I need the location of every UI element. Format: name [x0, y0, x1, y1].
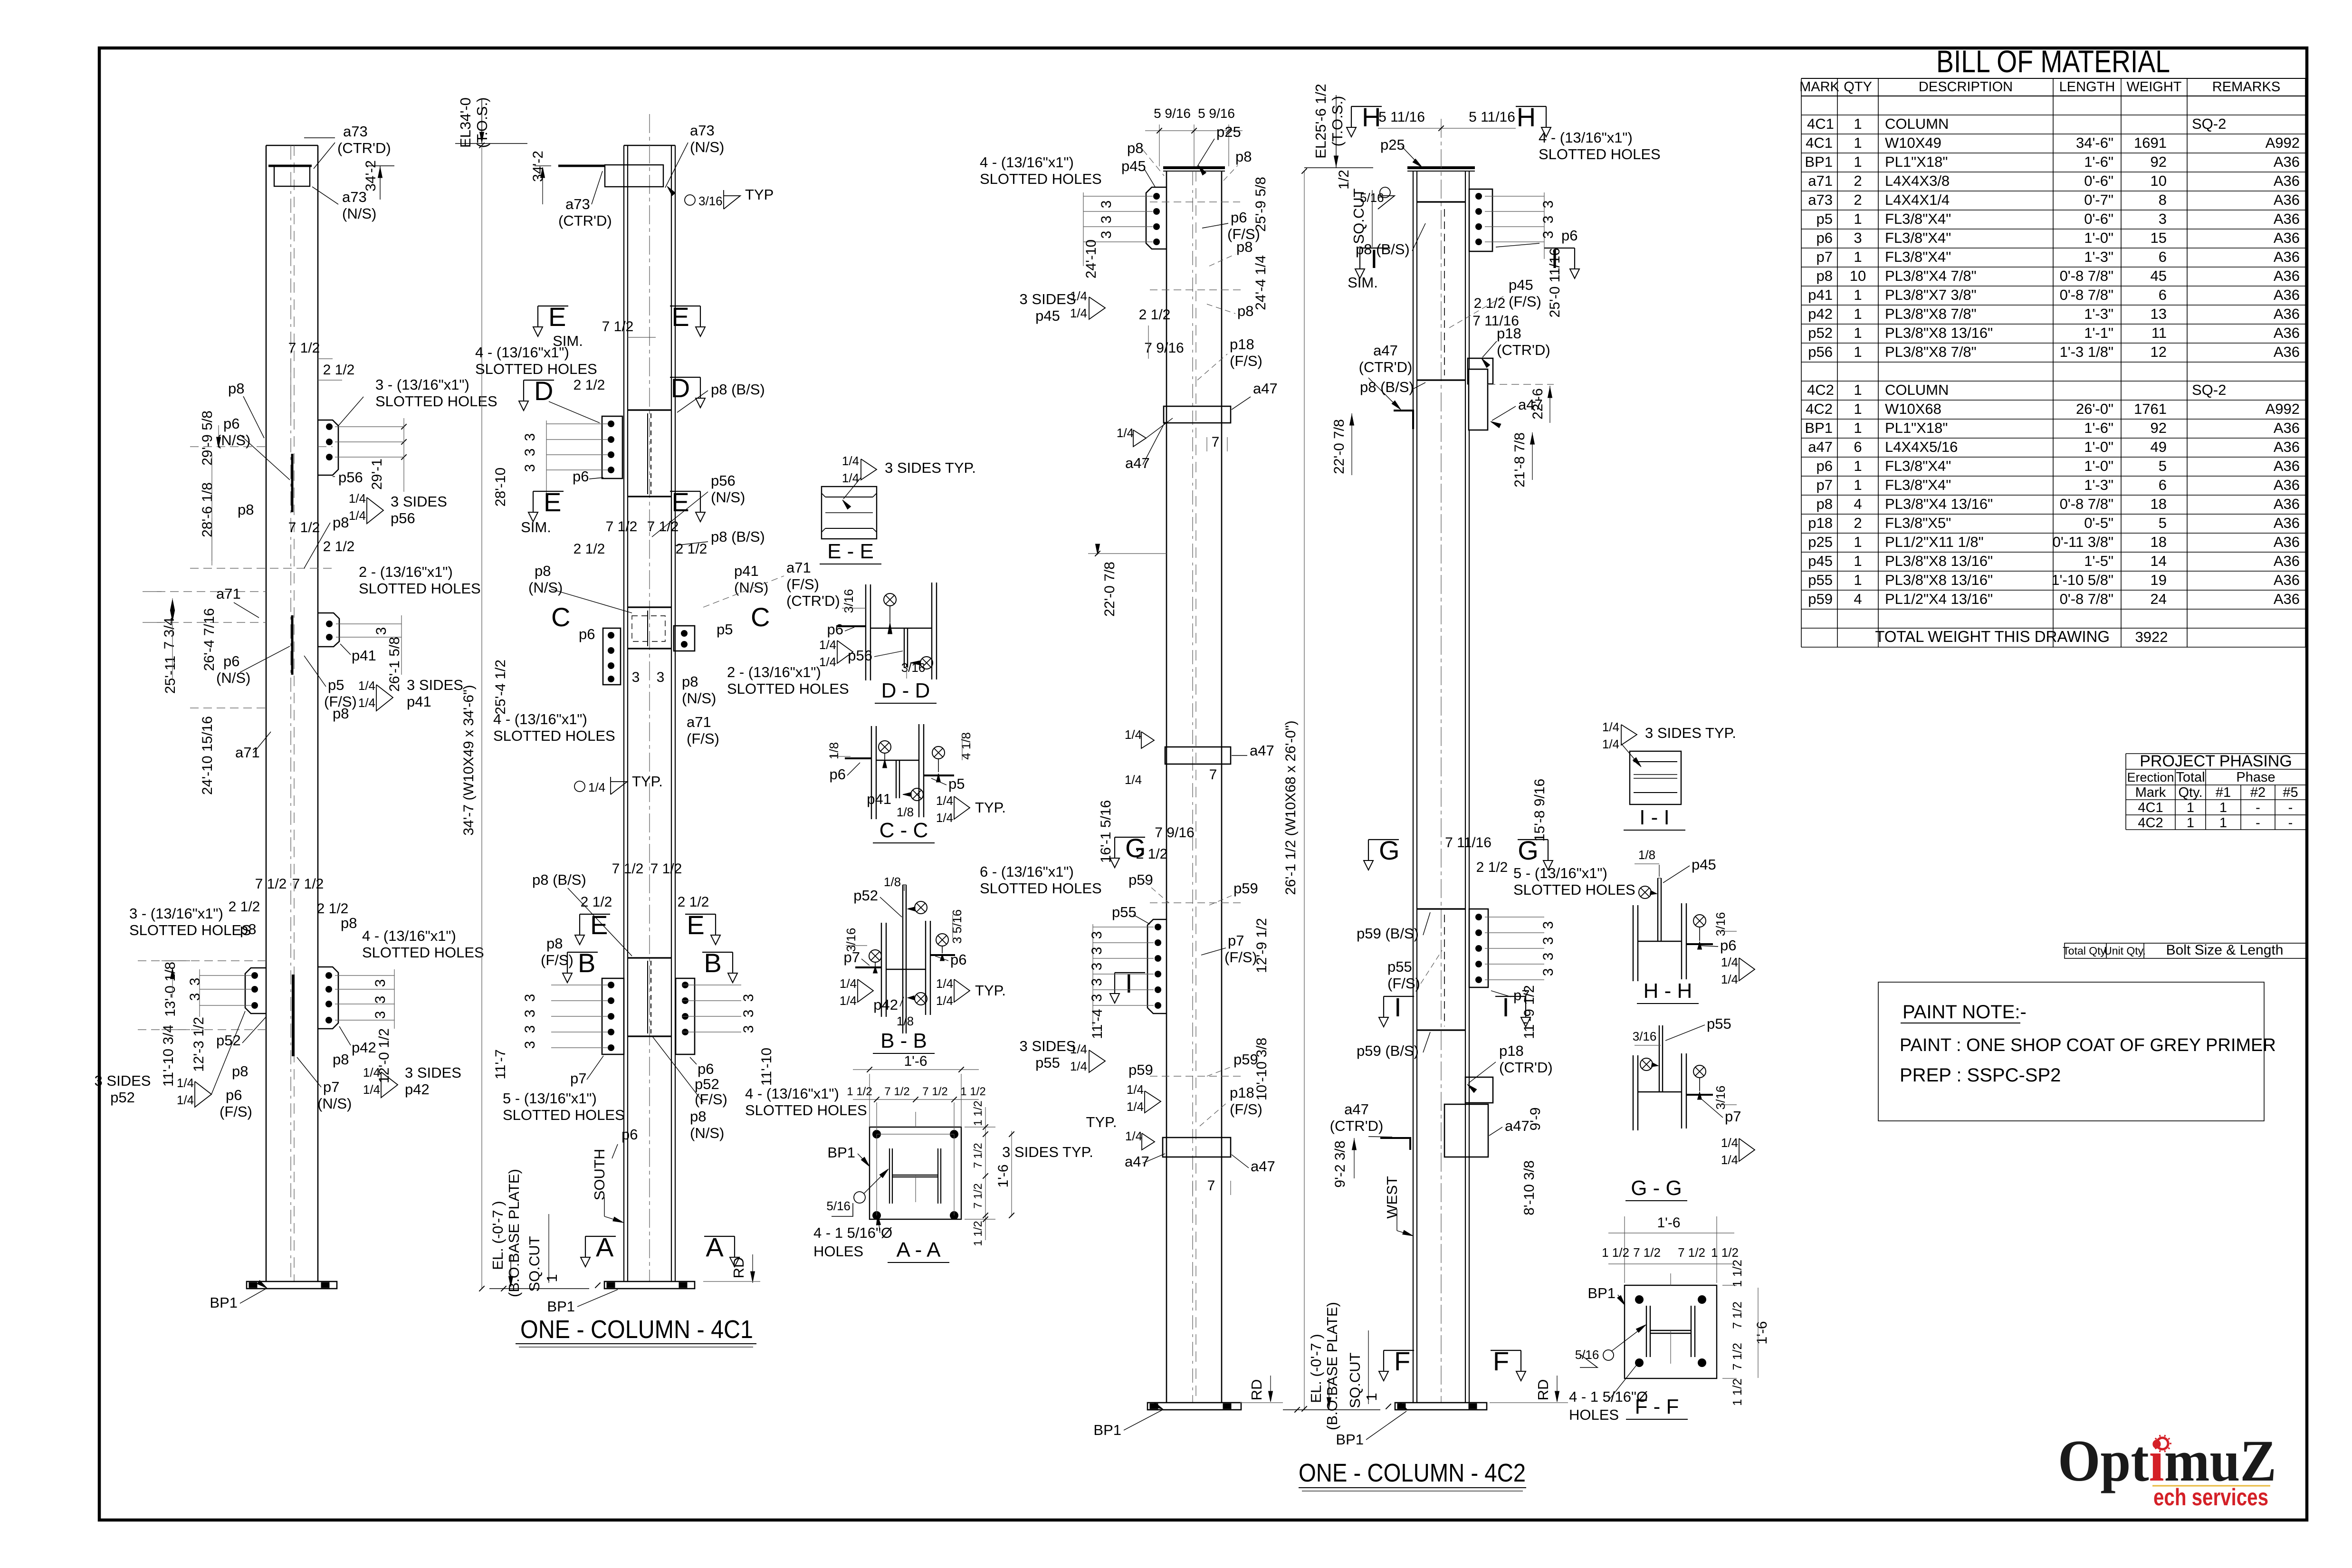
svg-text:1'-3": 1'-3"	[2084, 249, 2113, 265]
svg-text:1'-6: 1'-6	[904, 1053, 927, 1069]
svg-text:5 11/16: 5 11/16	[1378, 109, 1425, 125]
svg-text:Total Qty.: Total Qty.	[2063, 945, 2108, 957]
svg-text:10: 10	[2151, 172, 2167, 189]
svg-text:1: 1	[1854, 534, 1862, 550]
svg-text:3: 3	[373, 979, 388, 987]
p7 bracket view2 B-level left	[602, 978, 624, 1054]
svg-text:15: 15	[2151, 229, 2167, 246]
svg-text:-: -	[2256, 815, 2260, 831]
section A-A base plate square	[870, 1127, 961, 1219]
svg-text:2 1/2: 2 1/2	[581, 894, 612, 910]
svg-text:1 1/2: 1 1/2	[972, 1100, 985, 1126]
svg-text:HOLES: HOLES	[1569, 1406, 1619, 1423]
svg-text:p7: p7	[844, 949, 860, 966]
svg-text:7 1/2: 7 1/2	[972, 1143, 985, 1168]
svg-text:15'-8 9/16: 15'-8 9/16	[1532, 779, 1548, 842]
svg-text:5/16: 5/16	[826, 1199, 851, 1213]
svg-text:A36: A36	[2274, 306, 2300, 322]
svg-text:E - E: E - E	[827, 540, 874, 563]
svg-text:a47: a47	[1505, 1118, 1530, 1134]
svg-text:SLOTTED HOLES: SLOTTED HOLES	[493, 727, 615, 744]
column 4C1 side elevation view web outline	[266, 145, 267, 1281]
svg-text:ech services: ech services	[2153, 1484, 2268, 1511]
svg-text:PL1"X18": PL1"X18"	[1885, 153, 1948, 170]
svg-text:HOLES: HOLES	[813, 1243, 863, 1260]
svg-text:MARK: MARK	[1799, 79, 1839, 95]
full height dimension line view2	[481, 145, 482, 1289]
svg-text:-: -	[2256, 800, 2260, 815]
svg-text:25'-11: 25'-11	[163, 656, 178, 694]
svg-text:1: 1	[1363, 1393, 1380, 1401]
svg-text:1/8: 1/8	[897, 805, 914, 819]
svg-text:p59: p59	[1128, 1061, 1153, 1078]
svg-text:1/4: 1/4	[819, 655, 836, 669]
svg-text:ONE - COLUMN - 4C2: ONE - COLUMN - 4C2	[1299, 1459, 1526, 1487]
section flags A	[585, 1236, 616, 1237]
svg-text:p8: p8	[1127, 140, 1143, 156]
svg-text:0'-8 7/8": 0'-8 7/8"	[2060, 591, 2113, 607]
svg-text:4 - 1 5/16"Ø: 4 - 1 5/16"Ø	[813, 1224, 892, 1241]
svg-text:FL3/8"X5": FL3/8"X5"	[1885, 515, 1951, 531]
svg-text:p8: p8	[546, 935, 563, 952]
svg-text:p6: p6	[573, 468, 589, 485]
svg-text:13: 13	[2151, 306, 2167, 322]
svg-text:(CTR'D): (CTR'D)	[1359, 359, 1413, 375]
svg-text:3: 3	[1540, 216, 1556, 224]
svg-text:p7: p7	[570, 1070, 586, 1087]
p45 bracket on view1	[1146, 187, 1166, 249]
svg-text:11'-10 3/4: 11'-10 3/4	[161, 1025, 176, 1087]
edge-on plate p7 at view1 B-level	[292, 975, 295, 1056]
svg-text:3 SIDES: 3 SIDES	[391, 493, 447, 510]
svg-text:(N/S): (N/S)	[690, 139, 724, 155]
svg-text:1/8: 1/8	[827, 742, 841, 759]
svg-text:PAINT : ONE SHOP COAT OF GREY: PAINT : ONE SHOP COAT OF GREY PRIMER	[1900, 1035, 2276, 1055]
splice B-level on view2	[628, 957, 671, 958]
svg-text:4C1: 4C1	[1807, 115, 1834, 132]
svg-text:p42: p42	[873, 996, 898, 1013]
svg-text:p6: p6	[950, 951, 966, 968]
svg-text:3 - (13/16"x1"): 3 - (13/16"x1")	[129, 905, 223, 922]
svg-text:1/4: 1/4	[1602, 720, 1619, 734]
svg-text:1'-0": 1'-0"	[2084, 458, 2113, 474]
svg-text:7 1/2: 7 1/2	[1678, 1245, 1705, 1260]
svg-text:F: F	[1493, 1346, 1509, 1376]
svg-text:p5: p5	[948, 775, 965, 792]
svg-text:3 SIDES: 3 SIDES	[407, 677, 463, 693]
svg-text:1/4: 1/4	[840, 976, 857, 991]
svg-text:1/8: 1/8	[897, 1014, 914, 1028]
svg-text:a71: a71	[687, 714, 711, 730]
svg-text:I: I	[1125, 968, 1133, 998]
svg-text:0'-8 7/8": 0'-8 7/8"	[2060, 268, 2113, 284]
svg-text:SOUTH: SOUTH	[591, 1149, 608, 1201]
svg-text:TOTAL WEIGHT THIS DRAWING: TOTAL WEIGHT THIS DRAWING	[1875, 628, 2110, 645]
svg-text:WEIGHT: WEIGHT	[2127, 79, 2182, 95]
svg-text:1/4: 1/4	[1070, 1042, 1087, 1056]
svg-text:p8: p8	[535, 563, 551, 579]
svg-text:7: 7	[1209, 767, 1217, 783]
I flags lower	[1384, 996, 1414, 997]
section D-D flanges	[865, 584, 866, 680]
svg-text:SLOTTED HOLES: SLOTTED HOLES	[362, 944, 484, 961]
svg-text:p8: p8	[238, 501, 254, 518]
svg-text:1'-5": 1'-5"	[2084, 553, 2113, 569]
svg-text:1/4: 1/4	[1125, 727, 1142, 742]
B-B weld symbols	[915, 901, 927, 914]
svg-text:6: 6	[2159, 477, 2167, 493]
svg-text:25'-9 5/8: 25'-9 5/8	[1253, 177, 1269, 232]
svg-text:A992: A992	[2266, 401, 2300, 417]
svg-text:7 9/16: 7 9/16	[1155, 825, 1194, 841]
svg-text:PL3/8"X7 3/8": PL3/8"X7 3/8"	[1885, 287, 1977, 303]
svg-text:24'-4 1/4: 24'-4 1/4	[1253, 255, 1269, 310]
p18 and a47 boxes top right view2	[1468, 358, 1493, 384]
project phasing table	[2126, 753, 2306, 754]
svg-text:p6: p6	[226, 1087, 242, 1103]
svg-text:45: 45	[2151, 268, 2167, 284]
svg-text:1/4: 1/4	[840, 994, 857, 1008]
svg-text:92: 92	[2151, 153, 2167, 170]
svg-text:BP1: BP1	[1587, 1285, 1616, 1301]
bolt size and length bar	[2065, 943, 2306, 958]
section F-F base plate square	[1625, 1285, 1717, 1378]
svg-text:1/4: 1/4	[177, 1076, 194, 1090]
svg-text:PROJECT PHASING: PROJECT PHASING	[2140, 752, 2292, 770]
svg-text:PREP : SSPC-SP2: PREP : SSPC-SP2	[1900, 1065, 2061, 1086]
svg-text:8'-10 3/8: 8'-10 3/8	[1521, 1160, 1537, 1215]
svg-text:2 - (13/16"x1"): 2 - (13/16"x1")	[359, 564, 453, 580]
svg-text:4C2: 4C2	[2138, 815, 2163, 831]
svg-text:26'-1 5/8: 26'-1 5/8	[387, 637, 402, 692]
section C-C web and plates	[876, 760, 919, 761]
section G-G flanges	[1633, 1055, 1634, 1130]
svg-text:34'-6": 34'-6"	[2076, 134, 2113, 151]
svg-text:A36: A36	[2274, 191, 2300, 208]
base level line and markers 4C1	[489, 1288, 589, 1289]
svg-text:p52: p52	[110, 1089, 135, 1106]
svg-text:19: 19	[2151, 572, 2167, 588]
svg-text:p7: p7	[1725, 1108, 1741, 1125]
svg-text:2: 2	[1854, 515, 1862, 531]
svg-text:A36: A36	[2274, 210, 2300, 227]
svg-text:p6: p6	[827, 621, 843, 638]
svg-text:(CTR'D): (CTR'D)	[1499, 1059, 1553, 1076]
svg-text:p7: p7	[1817, 477, 1833, 493]
svg-text:4 - (13/16"x1"): 4 - (13/16"x1")	[493, 711, 587, 727]
svg-text:ONE - COLUMN - 4C1: ONE - COLUMN - 4C1	[520, 1315, 753, 1344]
column 4C1 view1 centerline	[290, 145, 291, 1281]
svg-text:5 9/16: 5 9/16	[1198, 106, 1235, 121]
svg-text:B: B	[704, 948, 721, 978]
svg-text:5 - (13/16"x1"): 5 - (13/16"x1")	[1513, 865, 1607, 881]
svg-text:a47: a47	[1250, 742, 1274, 759]
svg-text:EL25'-6 1/2: EL25'-6 1/2	[1312, 84, 1329, 159]
BOM grid lines	[1801, 78, 2305, 79]
svg-text:(F/S): (F/S)	[687, 730, 719, 747]
svg-text:B: B	[578, 948, 595, 978]
svg-text:26'-0": 26'-0"	[2076, 401, 2113, 417]
svg-text:A36: A36	[2274, 153, 2300, 170]
svg-text:3: 3	[522, 449, 538, 457]
svg-text:TYP.: TYP.	[1086, 1114, 1117, 1130]
svg-text:p8 (B/S): p8 (B/S)	[711, 528, 765, 545]
a47 box 3 on view1	[1163, 1138, 1231, 1157]
svg-text:p45: p45	[1692, 856, 1716, 873]
svg-text:H - H: H - H	[1644, 979, 1692, 1003]
svg-text:1: 1	[1854, 553, 1862, 569]
svg-text:(CTR'D): (CTR'D)	[786, 593, 840, 609]
svg-text:0'-7": 0'-7"	[2084, 191, 2113, 208]
svg-text:4 - (13/16"x1"): 4 - (13/16"x1")	[980, 154, 1074, 171]
connection plate p52 bracket left on view1	[245, 968, 266, 1013]
svg-text:D - D: D - D	[881, 679, 930, 702]
A-A right dims	[965, 1127, 995, 1128]
svg-text:1: 1	[2219, 815, 2227, 831]
svg-text:p42: p42	[405, 1081, 430, 1098]
svg-text:24: 24	[2151, 591, 2167, 607]
svg-text:1'-3": 1'-3"	[2084, 477, 2113, 493]
edge-on plate p6 at view1 level1	[291, 454, 294, 512]
svg-text:3/16: 3/16	[1713, 912, 1728, 937]
svg-text:a73: a73	[1808, 191, 1833, 208]
svg-text:2 1/2: 2 1/2	[323, 362, 355, 378]
svg-text:(CTR'D): (CTR'D)	[337, 140, 391, 156]
section D-D web and plates	[870, 628, 932, 629]
svg-text:1'-6: 1'-6	[995, 1164, 1011, 1187]
svg-text:p8: p8	[228, 380, 244, 397]
svg-text:1/4: 1/4	[349, 491, 366, 506]
svg-text:(N/S): (N/S)	[528, 579, 563, 596]
svg-text:E: E	[544, 487, 561, 517]
dashed level top view1	[1150, 201, 1240, 202]
level dash lines B-level view1	[138, 960, 266, 961]
svg-text:1/4: 1/4	[1117, 426, 1134, 440]
svg-text:1: 1	[1854, 572, 1862, 588]
svg-text:p42: p42	[352, 1039, 376, 1056]
column 4C2 front elevation flanges	[1413, 171, 1414, 1403]
svg-text:E: E	[687, 910, 704, 940]
svg-text:1: 1	[2219, 800, 2227, 815]
a47 box 2 on view1	[1165, 747, 1231, 764]
svg-text:RD: RD	[1248, 1379, 1265, 1401]
svg-text:3: 3	[657, 669, 665, 685]
svg-text:p56: p56	[848, 647, 872, 664]
view1 left dimension chain lines	[172, 598, 173, 622]
svg-text:1: 1	[1854, 249, 1862, 265]
connection plate p41 bracket on view1	[318, 613, 339, 647]
svg-text:p45: p45	[1509, 277, 1533, 293]
svg-text:2 1/2: 2 1/2	[229, 899, 260, 915]
svg-text:1/2: 1/2	[1336, 170, 1352, 190]
svg-text:C: C	[751, 602, 770, 632]
svg-text:3: 3	[1540, 937, 1556, 945]
clip angle a73 on view1	[274, 165, 310, 186]
svg-text:PAINT NOTE:-: PAINT NOTE:-	[1903, 1002, 2027, 1023]
svg-text:a47: a47	[1344, 1101, 1369, 1118]
svg-text:1/4: 1/4	[349, 508, 366, 523]
H-H weld symbols	[1639, 886, 1651, 899]
svg-text:(N/S): (N/S)	[216, 669, 250, 686]
svg-text:RD: RD	[1535, 1379, 1551, 1401]
svg-text:EL34'-0: EL34'-0	[457, 97, 474, 148]
svg-text:2 1/2: 2 1/2	[676, 541, 708, 557]
svg-text:WEST: WEST	[1384, 1176, 1400, 1219]
svg-text:FL3/8"X4": FL3/8"X4"	[1885, 249, 1951, 265]
svg-text:SLOTTED HOLES: SLOTTED HOLES	[129, 922, 251, 938]
svg-text:I - I: I - I	[1639, 806, 1670, 829]
svg-text:4: 4	[1854, 496, 1862, 512]
svg-text:3 SIDES: 3 SIDES	[1020, 291, 1076, 307]
svg-text:PL3/8"X8 13/16": PL3/8"X8 13/16"	[1885, 553, 1993, 569]
svg-text:p8: p8	[333, 1051, 349, 1068]
F-F right dims	[1722, 1285, 1737, 1286]
weld TYP note top	[685, 195, 695, 205]
section C-C flanges	[871, 726, 872, 819]
svg-text:p8 (B/S): p8 (B/S)	[532, 871, 586, 888]
svg-text:3: 3	[1540, 201, 1556, 209]
svg-text:2 1/2: 2 1/2	[1136, 846, 1168, 862]
svg-text:FL3/8"X4": FL3/8"X4"	[1885, 210, 1951, 227]
svg-text:2 1/2: 2 1/2	[323, 539, 355, 555]
svg-text:E: E	[548, 302, 566, 332]
svg-text:A36: A36	[2274, 553, 2300, 569]
svg-text:3/16: 3/16	[698, 194, 723, 208]
svg-text:SLOTTED HOLES: SLOTTED HOLES	[475, 361, 597, 377]
svg-text:3 SIDES TYP.: 3 SIDES TYP.	[1002, 1144, 1093, 1160]
section B-B web and plates	[886, 969, 926, 970]
svg-text:SIM.: SIM.	[1348, 274, 1378, 291]
svg-text:BP1: BP1	[1805, 420, 1833, 436]
svg-text:7: 7	[1212, 434, 1220, 450]
svg-text:Unit Qty.: Unit Qty.	[2104, 945, 2146, 957]
splice C-level on view2	[628, 606, 671, 608]
svg-text:1: 1	[2187, 800, 2194, 815]
svg-text:2 1/2: 2 1/2	[1474, 296, 1506, 311]
svg-text:1: 1	[1854, 477, 1862, 493]
svg-text:3: 3	[373, 996, 388, 1004]
svg-text:p6: p6	[223, 415, 239, 432]
svg-text:Mark: Mark	[2135, 785, 2166, 800]
svg-text:a71: a71	[235, 744, 260, 761]
svg-text:p41: p41	[867, 791, 891, 807]
svg-text:p8: p8	[1237, 303, 1253, 319]
svg-text:p25: p25	[1380, 136, 1405, 153]
svg-text:3: 3	[1854, 229, 1862, 246]
svg-text:p7: p7	[323, 1079, 339, 1095]
svg-text:(N/S): (N/S)	[734, 579, 768, 596]
svg-text:BILL OF MATERIAL: BILL OF MATERIAL	[1936, 44, 2170, 79]
svg-text:1/4: 1/4	[1127, 1082, 1144, 1097]
svg-text:6 - (13/16"x1"): 6 - (13/16"x1")	[980, 863, 1074, 880]
svg-text:A - A: A - A	[897, 1238, 941, 1262]
svg-text:TYP.: TYP.	[632, 773, 663, 790]
svg-text:1/4: 1/4	[1721, 955, 1738, 969]
cap plate p25 view1	[1163, 166, 1225, 169]
svg-text:11'-10: 11'-10	[759, 1048, 774, 1086]
level dash lines level2	[157, 591, 266, 592]
svg-text:EL. (-0'-7 ): EL. (-0'-7 )	[1308, 1334, 1324, 1403]
svg-text:p52: p52	[216, 1032, 241, 1049]
svg-text:6: 6	[2159, 249, 2167, 265]
p6 bracket view2 right top	[1469, 189, 1492, 251]
svg-text:Qty.: Qty.	[2178, 785, 2202, 800]
svg-text:49: 49	[2151, 439, 2167, 455]
svg-text:3: 3	[2159, 210, 2167, 227]
svg-text:A36: A36	[2274, 534, 2300, 550]
svg-text:p5: p5	[1817, 210, 1833, 227]
svg-text:Erection: Erection	[2127, 770, 2174, 784]
svg-text:PL3/8"X8 7/8": PL3/8"X8 7/8"	[1885, 344, 1977, 360]
svg-text:1/8: 1/8	[884, 875, 901, 889]
svg-text:3: 3	[187, 978, 203, 986]
svg-text:4 - (13/16"x1"): 4 - (13/16"x1")	[1539, 129, 1633, 146]
splice top on view2: p8 plates	[1417, 201, 1465, 202]
svg-text:F - F: F - F	[1635, 1395, 1679, 1418]
svg-text:p7: p7	[1817, 249, 1833, 265]
svg-text:1/4: 1/4	[1721, 1136, 1738, 1150]
svg-text:1'-6: 1'-6	[1657, 1215, 1680, 1231]
section flags E top	[538, 306, 568, 306]
A-A column section	[889, 1148, 890, 1204]
svg-text:L4X4X5/16: L4X4X5/16	[1885, 439, 1958, 455]
svg-text:p45: p45	[1035, 307, 1060, 324]
svg-text:1'-3 1/8": 1'-3 1/8"	[2060, 344, 2113, 360]
svg-text:1: 1	[1854, 115, 1862, 132]
full height dim 4C2 view2	[1304, 171, 1305, 1409]
svg-text:(CTR'D): (CTR'D)	[558, 212, 612, 229]
section I-I box	[1630, 751, 1681, 804]
svg-text:A36: A36	[2274, 268, 2300, 284]
svg-text:5: 5	[2159, 458, 2167, 474]
svg-text:1 1/2: 1 1/2	[1711, 1245, 1739, 1260]
svg-text:5 - (13/16"x1"): 5 - (13/16"x1")	[503, 1090, 597, 1107]
svg-text:1: 1	[1854, 134, 1862, 151]
svg-text:4: 4	[1854, 591, 1862, 607]
svg-text:BP1: BP1	[1093, 1422, 1121, 1438]
svg-text:10: 10	[1850, 268, 1866, 284]
svg-text:3: 3	[1089, 994, 1105, 1002]
clip angle a73 on view2	[605, 165, 663, 187]
svg-text:a71: a71	[216, 585, 241, 602]
svg-text:7 1/2: 7 1/2	[602, 319, 634, 335]
svg-text:1/4: 1/4	[842, 454, 859, 468]
svg-text:3: 3	[1099, 231, 1114, 239]
svg-text:4 - (13/16"x1"): 4 - (13/16"x1")	[362, 927, 456, 944]
svg-text:3: 3	[522, 994, 538, 1002]
svg-text:1 1/2: 1 1/2	[847, 1085, 872, 1098]
svg-text:2: 2	[1854, 172, 1862, 189]
svg-text:SQ.CUT: SQ.CUT	[1350, 188, 1367, 244]
svg-text:7 1/2: 7 1/2	[647, 519, 679, 535]
svg-text:p41: p41	[407, 693, 431, 710]
svg-text:E: E	[671, 302, 689, 332]
svg-text:p52: p52	[853, 887, 878, 904]
svg-text:7 1/2: 7 1/2	[922, 1085, 947, 1098]
svg-text:1/4: 1/4	[1125, 773, 1142, 787]
svg-text:p18: p18	[1230, 336, 1254, 353]
svg-text:12'-9 1/2: 12'-9 1/2	[1254, 918, 1270, 973]
svg-text:a47: a47	[1125, 455, 1150, 471]
section H-H web and plates	[1638, 941, 1682, 942]
svg-text:FL3/8"X4": FL3/8"X4"	[1885, 229, 1951, 246]
svg-text:1/4: 1/4	[1125, 1129, 1142, 1143]
svg-text:1: 1	[544, 1274, 560, 1282]
p6 bracket view2 B-level right	[676, 978, 695, 1054]
svg-text:11: 11	[2151, 325, 2167, 341]
svg-text:p8: p8	[1236, 239, 1252, 255]
svg-text:1/4: 1/4	[819, 638, 836, 652]
